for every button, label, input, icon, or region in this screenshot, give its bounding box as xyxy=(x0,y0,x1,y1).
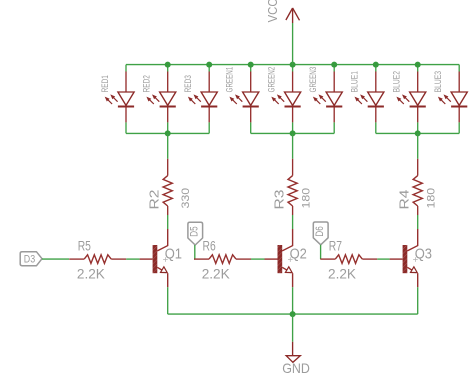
svg-text:Q1: Q1 xyxy=(165,245,182,262)
svg-text:R2: R2 xyxy=(148,189,162,209)
svg-text:RED1: RED1 xyxy=(100,75,110,92)
wire D6 drop xyxy=(320,245,322,259)
junction GND net xyxy=(290,311,296,317)
wire anode stub RED2 xyxy=(167,64,169,72)
junction top rail x375 xyxy=(373,62,379,68)
wire cathode stub RED1 xyxy=(125,122,127,133)
svg-text:Q2: Q2 xyxy=(290,245,307,262)
junction top rail x334 xyxy=(331,62,337,68)
resistor R6 xyxy=(194,255,251,264)
LED GREEN2 xyxy=(271,72,300,123)
svg-text:2.2K: 2.2K xyxy=(328,267,357,282)
wire Q2 emitter xyxy=(292,287,294,314)
ground GND xyxy=(286,342,300,363)
wire emitter rail GND net xyxy=(168,313,418,315)
LED GREEN3 xyxy=(313,72,342,123)
svg-text:D3: D3 xyxy=(24,253,35,265)
resistor R2 xyxy=(163,159,172,215)
wire cathode stub RED3 xyxy=(208,122,210,133)
LED BLUE1 xyxy=(355,72,384,123)
svg-text:R3: R3 xyxy=(273,189,287,209)
svg-text:BLUE3: BLUE3 xyxy=(433,71,443,92)
wire anode stub BLUE2 xyxy=(417,64,419,72)
wire cathode stub GREEN2 xyxy=(292,122,294,133)
LED RED2 xyxy=(146,72,175,123)
LED BLUE3 xyxy=(438,72,467,123)
wire R2 bottom xyxy=(167,215,169,229)
wire R5 to Q1 base xyxy=(126,258,139,260)
wire cathode stub GREEN1 xyxy=(250,122,252,133)
wire R3 top xyxy=(292,133,294,158)
LED RED3 xyxy=(188,72,217,123)
wire GND stem xyxy=(292,314,294,342)
svg-text:VCC: VCC xyxy=(265,0,280,22)
LED BLUE2 xyxy=(396,72,425,123)
resistor R4 xyxy=(413,159,422,215)
wire anode stub RED3 xyxy=(208,64,210,72)
svg-text:GREEN1: GREEN1 xyxy=(225,67,235,93)
wire D5 drop xyxy=(194,245,196,259)
origin cross Q1 xyxy=(163,257,168,262)
wire anode stub GREEN3 xyxy=(333,64,335,72)
svg-text:GREEN3: GREEN3 xyxy=(308,67,318,93)
resistor R3 xyxy=(288,159,297,215)
junction top rail x209 xyxy=(206,62,212,68)
wire cathode rail group 1 xyxy=(126,132,209,134)
wire R7 to Q3 base xyxy=(377,258,389,260)
origin cross Q2 xyxy=(288,257,293,262)
pin flag D6 xyxy=(313,222,328,245)
svg-text:180: 180 xyxy=(426,188,438,209)
wire D3 to R5 xyxy=(42,258,69,260)
junction top rail x292 xyxy=(290,62,296,68)
svg-text:BLUE1: BLUE1 xyxy=(350,71,360,92)
wire anode stub BLUE3 xyxy=(458,65,460,72)
wire anode stub RED1 xyxy=(125,65,127,72)
wire anode stub BLUE1 xyxy=(375,64,377,72)
wire VCC stem xyxy=(292,23,294,65)
transistor Q3 xyxy=(390,229,418,287)
svg-text:BLUE2: BLUE2 xyxy=(392,71,402,92)
svg-text:RED2: RED2 xyxy=(142,75,152,92)
wire Q3 emitter xyxy=(417,287,419,314)
wire anode stub GREEN1 xyxy=(250,64,252,72)
wire cathode rail group 2 xyxy=(251,132,335,134)
junction cathode rail x417 xyxy=(415,130,421,136)
LED RED1 xyxy=(105,72,134,123)
svg-text:GREEN2: GREEN2 xyxy=(266,67,276,93)
wire R2 top xyxy=(167,133,169,158)
wire anode stub GREEN2 xyxy=(292,64,294,72)
wire cathode stub GREEN3 xyxy=(333,122,335,133)
junction cathode rail x292 xyxy=(290,130,296,136)
svg-text:R6: R6 xyxy=(203,239,216,254)
LED GREEN1 xyxy=(229,72,258,123)
wire R6 to Q2 base xyxy=(251,258,265,260)
svg-text:D6: D6 xyxy=(314,226,326,236)
resistor R7 xyxy=(320,255,377,264)
wire R4 bottom xyxy=(417,215,419,229)
wire cathode stub RED2 xyxy=(167,122,169,133)
pin flag D3 xyxy=(20,252,42,266)
wire cathode rail group 3 xyxy=(376,132,459,134)
wire cathode stub BLUE2 xyxy=(417,122,419,133)
junction top rail x417 xyxy=(415,62,421,68)
svg-text:R5: R5 xyxy=(78,239,91,254)
svg-text:2.2K: 2.2K xyxy=(77,267,106,282)
transistor Q2 xyxy=(265,229,293,287)
svg-text:R4: R4 xyxy=(398,189,412,209)
svg-text:2.2K: 2.2K xyxy=(202,267,231,282)
svg-text:330: 330 xyxy=(180,188,192,209)
origin cross Q3 xyxy=(413,257,418,262)
junction cathode rail x167 xyxy=(165,130,171,136)
svg-text:RED3: RED3 xyxy=(183,75,193,92)
supply VCC xyxy=(286,8,300,23)
wire cathode stub BLUE3 xyxy=(458,122,460,133)
junction top rail x167 xyxy=(165,62,171,68)
svg-text:GND: GND xyxy=(282,361,310,376)
resistor R5 xyxy=(69,255,126,264)
pin flag D5 xyxy=(188,222,203,245)
wire R3 bottom xyxy=(292,215,294,229)
wire R4 top xyxy=(417,133,419,158)
svg-text:D5: D5 xyxy=(188,226,200,236)
transistor Q1 xyxy=(140,229,168,287)
wire Q1 emitter xyxy=(167,287,169,314)
svg-text:Q3: Q3 xyxy=(415,245,432,262)
wire VCC net top rail xyxy=(126,64,459,66)
junction top rail x250 xyxy=(248,62,254,68)
svg-text:180: 180 xyxy=(301,188,313,209)
wire cathode stub BLUE1 xyxy=(375,122,377,133)
svg-text:R7: R7 xyxy=(329,239,342,254)
